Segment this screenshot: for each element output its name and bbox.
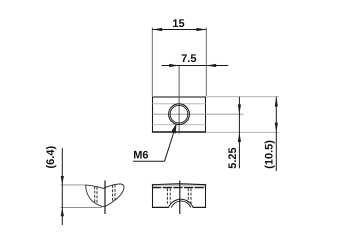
front view thread hidden line left — [169, 188, 171, 202]
tapped hole M6 inner circle — [170, 105, 188, 123]
horizontal centerline — [153, 113, 244, 115]
top view body outline — [153, 97, 206, 132]
side view thread hidden line right — [112, 185, 114, 202]
top view bottom edge (heavier) — [152, 131, 206, 133]
dimension (6.4) arrow up — [61, 207, 64, 216]
dimension (6.4) arrow down — [61, 176, 64, 185]
dimension 7.5 arrow left (outside, pointing right) — [169, 64, 179, 67]
leader line M6 sloped segment — [165, 129, 176, 162]
right extension line bottom — [207, 131, 279, 133]
side view centerline — [104, 180, 106, 214]
svg-text:7.5: 7.5 — [181, 53, 196, 65]
right extension line top — [207, 96, 279, 98]
dimension (6.4) line — [61, 148, 63, 225]
dimension 15 arrow left — [152, 28, 162, 31]
top view inner edge line upper — [153, 103, 206, 105]
svg-text:5.25: 5.25 — [227, 147, 239, 168]
svg-text:(6.4): (6.4) — [45, 146, 57, 169]
front view top edge — [152, 183, 206, 186]
dimension 7.5 arrow right (outside, pointing left) — [206, 64, 216, 67]
dimension 15 arrow right — [196, 28, 206, 31]
dimension (10.5) arrow up — [275, 97, 278, 107]
dimension 15 extension line left — [151, 28, 153, 97]
left extension line top — [61, 184, 86, 186]
dimension 7.5 line — [162, 65, 229, 67]
front view thread hidden line far left — [166, 188, 168, 203]
front view bottom edge right segment — [193, 206, 206, 208]
dimension 5.25 arrow up (below bottom line) — [238, 132, 241, 142]
front view centerline — [179, 181, 181, 215]
leader line M6 underline — [133, 160, 165, 162]
top view inner edge line lower — [153, 124, 206, 126]
front view relief arch outer — [169, 199, 193, 207]
dimension 15 line — [152, 29, 206, 31]
dimension 5.25 line — [238, 97, 240, 169]
svg-text:(10.5): (10.5) — [264, 140, 276, 169]
svg-text:15: 15 — [172, 18, 184, 30]
side view thread hidden line far left — [94, 186, 96, 203]
side view thread hidden line far right — [114, 185, 116, 201]
leader M6 arrowhead — [171, 123, 176, 133]
front view thread hidden line right — [187, 188, 189, 202]
dimension 5.25 arrow down (above center line) — [238, 105, 241, 115]
front view bottom edge left segment — [152, 206, 169, 208]
vertical centerline / 7.5 extension — [178, 66, 180, 134]
left extension line bottom — [61, 207, 102, 209]
front view left edge — [152, 185, 154, 208]
side view outline — [86, 184, 124, 206]
front view top flange band — [152, 184, 206, 187]
front view serration hidden line — [152, 187, 205, 189]
dimension (10.5) arrow down — [275, 123, 278, 133]
svg-text:M6: M6 — [133, 150, 148, 162]
dimension (10.5) line — [275, 97, 277, 171]
side view thread hidden line left — [96, 187, 98, 204]
dimension 15 extension line right — [205, 28, 207, 97]
front view relief arch inner — [171, 201, 190, 207]
front view thread hidden line far right — [190, 188, 192, 203]
front view right edge — [205, 185, 207, 208]
tapped hole M6 outer circle — [169, 104, 190, 125]
